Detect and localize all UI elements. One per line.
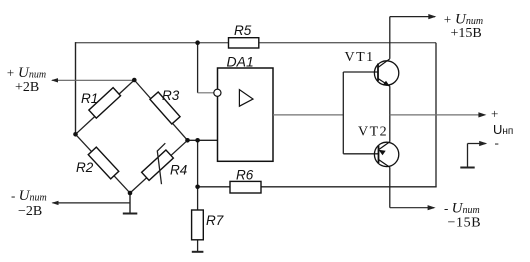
arrow -2V left [52,201,59,205]
resistor R5 [229,38,259,48]
wire bridge right node to op-amp noninverting input [188,139,218,141]
svg-text:VT2: VT2 [358,125,388,140]
svg-text:R1: R1 [81,91,98,106]
resistor R3 [150,92,180,124]
resistor R7 [192,210,204,240]
arrow minus terminal right [479,141,487,146]
svg-text:R2: R2 [76,160,94,175]
wire minus terminal vertical [467,144,469,168]
svg-text:R6: R6 [236,168,254,183]
svg-text:+: + [491,106,498,121]
wire VT2 collector vertical [389,167,391,207]
wire inverting input horizontal [198,92,214,94]
ground R7 [192,251,204,253]
svg-text:DA1: DA1 [227,54,254,70]
wire VT1 collector vertical [389,17,391,59]
resistor R6 [230,181,261,193]
node bridge bottom [128,191,133,196]
arrow -15V right [428,205,436,210]
transistor Q2 VT2 (pnp) [374,142,398,168]
ground minus terminal bar [460,167,474,169]
wire minus terminal line [468,143,486,145]
wire bridge edge R2 (left node to bottom node) [76,134,131,193]
op-amp U1 box DA1 [218,68,274,161]
wire VT1 base line [343,71,378,73]
resistor R1 [89,88,121,118]
wire top rail [76,42,437,44]
wire VT2 base line [343,153,378,155]
wire +2V supply line [52,79,134,81]
resistor R2 [88,147,119,179]
wire bridge bottom stem [129,193,131,214]
wire bridge edge R3 (top node to right node) [134,80,187,140]
ground bridge bottom [123,213,138,215]
svg-text:-: - [495,135,499,150]
R4 strike line [157,143,165,184]
svg-text:−15В: −15В [448,216,482,231]
wire -15V line [390,207,434,209]
wire op-amp output [273,114,343,116]
arrow +15V right [428,14,436,19]
arrow output right [478,112,486,117]
svg-text:+2В: +2В [15,80,39,95]
svg-text:VT1: VT1 [345,50,375,65]
op-amp inverting bubble [214,89,221,96]
wire emitter join vertical [389,86,391,142]
wire bridge edge R1 (left node to top node) [76,80,135,134]
wire R7 bottom stem [197,240,199,252]
wire right rail [435,43,437,188]
arrow +2V left [51,78,58,82]
wire noninverting branch vertical down to R6 node and R7 [197,140,199,210]
wire +15V line [390,16,435,18]
node noninverting branch [195,138,200,143]
svg-text:+15В: +15В [451,26,482,41]
resistor R4 (nonlinear, with strike) [142,150,174,180]
node bridge right [185,138,190,143]
svg-text:R4: R4 [170,163,187,178]
node bridge left [73,132,78,137]
wire bridge edge R4 (bottom node to right node) [130,140,188,193]
svg-text:R3: R3 [162,88,180,103]
wire inverting branch vertical (top rail to inverting input) [197,43,199,93]
wire output line to plus terminal [390,114,485,116]
wire base drive bar [342,72,344,154]
svg-text:R7: R7 [206,213,224,228]
svg-text:R5: R5 [234,23,252,38]
wire -2V supply line [53,202,131,204]
wire left vertical to bridge left node [75,42,77,134]
op-amp triangle symbol [239,90,253,107]
wire R6 line [198,186,437,188]
transistor Q1 VT1 (npn) [374,59,398,86]
svg-text:−2В: −2В [18,204,42,219]
node bridge top [132,78,137,83]
node R6/R7 [195,185,200,190]
node top rail / inverting branch [195,40,200,45]
